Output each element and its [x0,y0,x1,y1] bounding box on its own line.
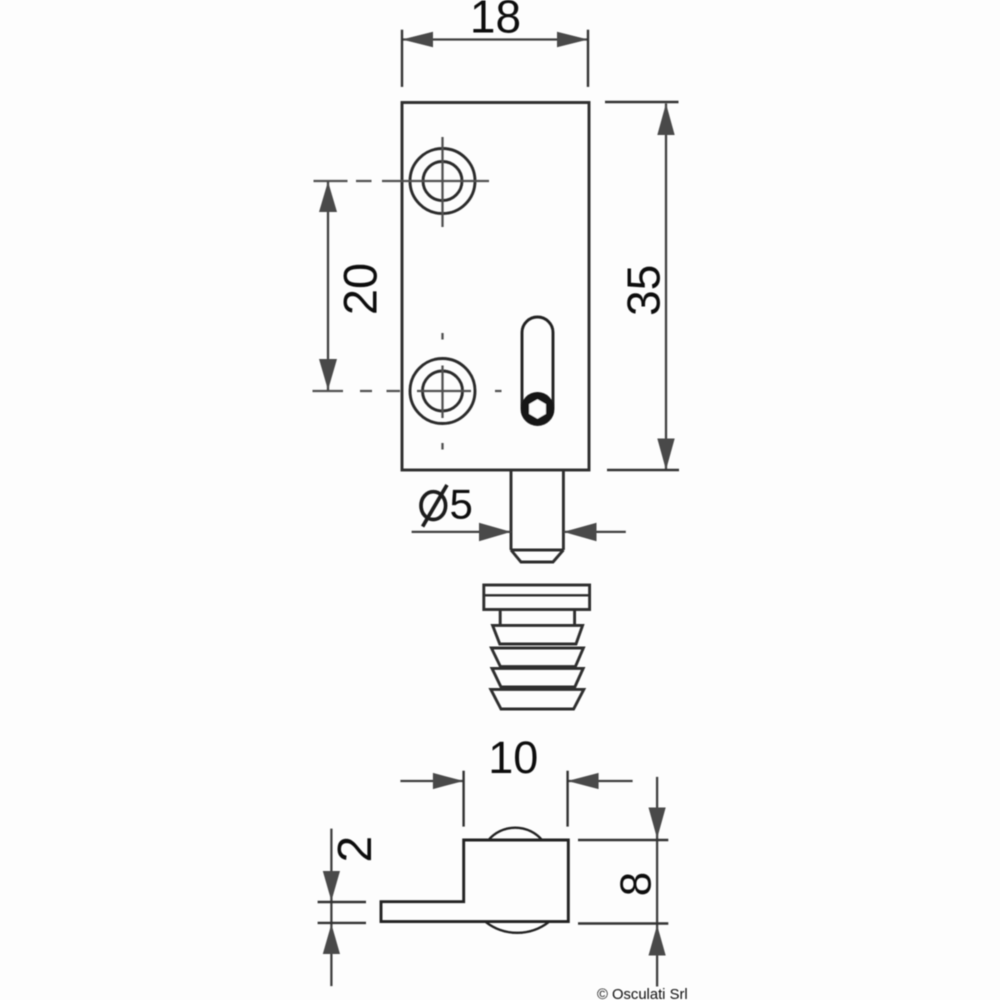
svg-text:5: 5 [450,481,473,528]
slot pin hex hole [529,399,546,419]
dim 8 bottom tick [578,922,668,924]
bracket bottom bump [486,922,550,933]
dim 10 left arrow [433,773,464,789]
dim 20 bottom arrow [319,359,337,390]
plug ring 4 [491,689,584,709]
dim diameter-5 left arrow [479,523,511,542]
plug cap [484,585,590,610]
dim 18 right arrow [557,32,588,48]
diameter symbol circle [421,492,446,520]
dim 8 line [656,777,658,987]
diameter symbol slash [423,485,447,527]
svg-text:8: 8 [611,872,660,896]
upper hole outer circle [410,149,475,214]
upper hole inner circle [423,162,462,201]
lower hole horizontal centerline [313,390,502,392]
dim 2 bottom tick [318,922,366,924]
dim 35 top tick [605,101,679,103]
svg-text:18: 18 [470,0,521,43]
dim 10 right arrow [568,773,599,789]
dim 10 right line [568,780,633,782]
upper hole horizontal centerline [314,180,490,182]
dim 8 bottom arrow [649,925,666,956]
dim 10 left line [400,780,463,782]
plug ring 2 [491,648,583,667]
lower hole outer circle [410,359,475,424]
slot pin dark ring [521,392,554,425]
lower hole vertical centerline [441,333,443,450]
dim diameter-5 left line [412,531,511,533]
dim 20 top arrow [319,182,337,213]
dim 18 left arrow [402,32,433,48]
dim 35 top arrow [657,104,674,136]
dim 8 top arrow [649,808,666,839]
svg-text:2: 2 [329,836,382,863]
dim 2 top arrow [323,871,340,901]
dim 18 right extension line [587,30,589,87]
dim 10 right extension line [566,771,568,827]
lower hole inner circle [423,371,463,411]
dim 18 line [403,38,587,40]
bracket top bump [489,828,543,840]
svg-text:© Osculati Srl: © Osculati Srl [597,987,688,1000]
slot [522,317,553,425]
dim 35 bottom tick [607,469,679,471]
pin chamfer tip [511,550,563,562]
svg-text:10: 10 [488,732,538,783]
dim 20 line [327,182,329,390]
dim 35 line [665,104,667,471]
dim diameter-5 right arrow [563,523,596,542]
dim 10 left extension line [462,771,464,827]
dim 8 top tick [578,839,668,841]
plug neck [500,610,574,626]
upper hole vertical centerline [441,137,443,227]
dim 35 bottom arrow [657,439,674,471]
svg-text:35: 35 [618,265,670,316]
plug ring 3 [492,668,583,687]
dim 2 top tick [318,901,366,903]
dim 18 left extension line [401,30,403,87]
dim diameter-5 right line [563,531,625,533]
svg-text:20: 20 [334,263,387,315]
dim 2 line [330,829,332,987]
bracket outline [381,840,568,922]
plug cap midline [484,594,590,596]
dim 2 bottom arrow [323,924,340,954]
pin body [511,470,563,550]
plate outline [402,103,589,471]
plug ring 1 [493,625,583,644]
